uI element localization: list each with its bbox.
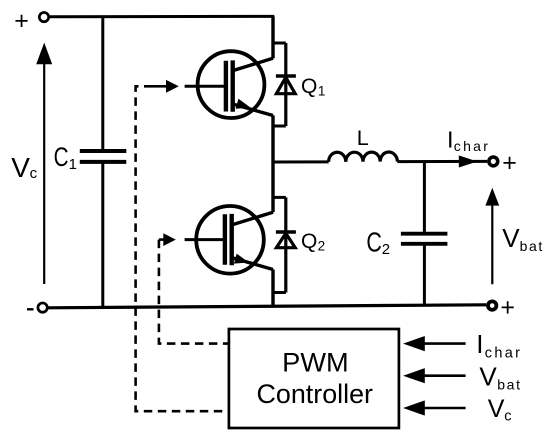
svg-text:2: 2 — [382, 241, 390, 258]
svg-text:2: 2 — [318, 238, 326, 253]
svg-text:V: V — [11, 152, 30, 183]
svg-text:V: V — [502, 223, 520, 253]
svg-text:1: 1 — [318, 83, 326, 98]
svg-text:Controller: Controller — [257, 379, 374, 409]
svg-text:V: V — [479, 361, 497, 391]
svg-text:L: L — [357, 126, 369, 150]
svg-text:PWM: PWM — [282, 347, 349, 377]
svg-text:C: C — [366, 226, 382, 257]
svg-text:1: 1 — [69, 156, 77, 173]
svg-text:bat: bat — [520, 238, 544, 254]
svg-text:C: C — [54, 142, 69, 172]
svg-text:c: c — [504, 408, 511, 424]
svg-text:+: + — [500, 294, 515, 322]
svg-text:+: + — [14, 7, 29, 35]
svg-text:I: I — [476, 329, 483, 359]
svg-text:char: char — [454, 138, 490, 154]
svg-text:Q: Q — [301, 230, 317, 253]
svg-text:V: V — [488, 395, 505, 423]
svg-text:I: I — [447, 127, 454, 153]
svg-text:c: c — [30, 165, 38, 182]
svg-text:+: + — [502, 149, 517, 177]
svg-text:bat: bat — [497, 377, 521, 393]
svg-text:char: char — [485, 346, 522, 362]
svg-text:Q: Q — [301, 75, 317, 98]
